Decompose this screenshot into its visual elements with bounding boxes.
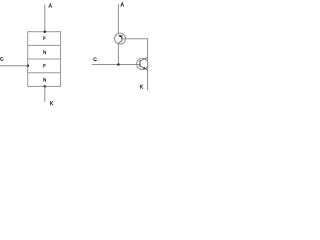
transistor Q2 emitter arrow (NPN, points out) <box>143 67 146 69</box>
transistor Q2 collector diagonal <box>140 57 148 61</box>
node A (left label) <box>49 4 52 8</box>
transistor Q1 PNP circle <box>115 33 126 44</box>
transistor Q2 base bar <box>139 60 141 66</box>
wire anode lead left <box>44 5 46 32</box>
wire layer boundary 3 <box>28 72 61 74</box>
P layer 1 label <box>44 37 46 40</box>
wire layer boundary 2 <box>28 58 61 60</box>
P layer 3 label <box>44 64 46 67</box>
wire cathode lead left <box>44 86 46 102</box>
node anode junction dot <box>44 30 47 33</box>
wire anode lead right <box>117 4 119 35</box>
N layer 2 label <box>44 51 46 54</box>
node K (right label) <box>140 85 142 89</box>
wire gate lead right <box>92 64 140 66</box>
wire gate lead left <box>0 65 28 67</box>
node gate junction dot <box>27 65 30 68</box>
N layer 4 label <box>44 78 46 81</box>
node gate junction dot right <box>117 63 120 66</box>
wire Q1 collector down to gate node <box>117 43 119 64</box>
node cathode junction dot <box>44 85 47 88</box>
node G (right label) <box>94 58 97 61</box>
node A (right label) <box>121 3 124 7</box>
transistor Q2 NPN circle <box>137 58 148 69</box>
wire layer boundary 1 <box>28 44 61 46</box>
transistor Q1 base bar <box>121 35 123 41</box>
wire Q1 base right and down to Q2 collector and cathode <box>122 39 148 91</box>
transistor Q1 emitter arrow (PNP, points to base) <box>119 35 122 38</box>
thyristor PNPN stack outline <box>28 32 61 87</box>
transistor Q1 emitter diagonal <box>118 35 121 37</box>
node G (left label) <box>0 57 3 60</box>
node K (left label) <box>50 101 52 105</box>
transistor Q2 emitter diagonal <box>140 66 148 70</box>
transistor Q1 collector diagonal <box>118 41 121 44</box>
